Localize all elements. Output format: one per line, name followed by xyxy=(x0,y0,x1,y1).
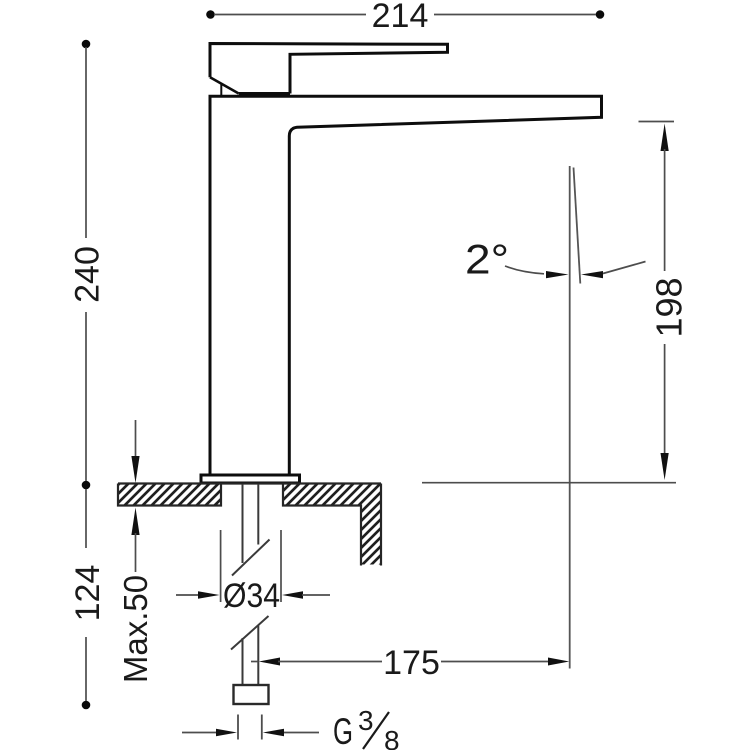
svg-text:2°: 2° xyxy=(465,236,509,283)
dimension 240 xyxy=(69,40,107,490)
dimension G 3/8 xyxy=(182,705,400,750)
faucet body and spout outline xyxy=(210,96,602,475)
base flange xyxy=(201,475,300,483)
svg-text:Ø34: Ø34 xyxy=(223,577,280,615)
angle annotation 2 degrees xyxy=(465,236,646,283)
dimension 175 xyxy=(251,644,569,682)
handle heel small tick xyxy=(220,85,222,96)
supply hose right line lower segment xyxy=(257,626,259,686)
handle heel chamfer diagonal xyxy=(210,77,239,93)
dimension 124 xyxy=(69,489,107,709)
faucet handle lever outline xyxy=(210,44,448,94)
countertop hatching right vertical block xyxy=(362,505,380,565)
svg-text:Max.50: Max.50 xyxy=(117,575,154,683)
svg-text:124: 124 xyxy=(69,565,107,622)
hose break slash lower xyxy=(231,616,269,650)
G3/8 connection nut xyxy=(234,685,269,704)
svg-text:214: 214 xyxy=(372,0,429,35)
dimension diameter 34 xyxy=(176,530,330,615)
water stream 2-degree tilted line xyxy=(574,168,581,284)
countertop hatching right block xyxy=(284,485,380,505)
supply hose left line lower segment xyxy=(242,638,244,685)
dimension 198 xyxy=(639,122,690,481)
countertop cross-section outline xyxy=(118,484,381,566)
hose break slash upper xyxy=(232,540,270,576)
svg-text:240: 240 xyxy=(69,246,107,303)
svg-text:8: 8 xyxy=(384,725,400,750)
supply hose right line upper segment xyxy=(257,484,259,545)
handle bottom edge xyxy=(239,92,290,95)
svg-text:175: 175 xyxy=(383,644,440,682)
svg-text:G: G xyxy=(333,711,353,750)
countertop hatching left block xyxy=(119,485,220,505)
supply hose left line upper segment xyxy=(242,484,244,563)
svg-text:3: 3 xyxy=(358,705,374,736)
dimension Max.50 xyxy=(117,420,154,683)
countertop level extension line xyxy=(422,482,676,484)
water stream vertical reference line xyxy=(569,166,571,669)
svg-text:198: 198 xyxy=(649,277,690,337)
dimension 214 xyxy=(206,0,604,35)
